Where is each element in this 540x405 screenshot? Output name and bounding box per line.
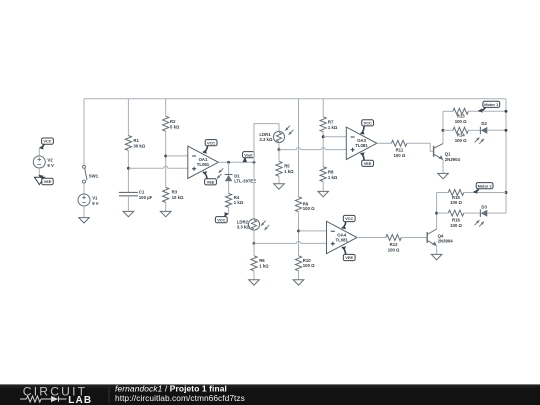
ground R5: [274, 184, 285, 189]
svg-text:100 Ω: 100 Ω: [455, 119, 467, 124]
svg-text:30 kΩ: 30 kΩ: [133, 144, 145, 149]
wire OA1 output: [218, 161, 254, 163]
svg-text:R3: R3: [172, 189, 178, 194]
wire rail to R1: [127, 99, 129, 136]
op-amp OA4: [327, 221, 358, 253]
wire R11 to Q1 base: [407, 143, 434, 151]
svg-text:fernandock1 / Projeto 1 final: fernandock1 / Projeto 1 final: [115, 384, 227, 394]
ground R10: [293, 280, 304, 285]
transistor Q1 2N3904: [434, 144, 461, 162]
wire SW1 to V1: [83, 183, 85, 194]
op-amp OA3: [346, 127, 377, 159]
svg-text:TL081: TL081: [355, 143, 368, 148]
svg-text:SW1: SW1: [89, 174, 99, 179]
svg-text:R12: R12: [390, 242, 398, 247]
resistor R7: [320, 117, 338, 132]
junction R1/C1 node: [127, 167, 130, 170]
svg-text:Vout: Vout: [244, 152, 253, 157]
resistor R15: [448, 190, 464, 206]
svg-text:3.3 kΩ: 3.3 kΩ: [259, 137, 273, 142]
svg-text:D3: D3: [481, 204, 487, 209]
LED D2: [475, 121, 488, 144]
op-amp OA1: [188, 146, 219, 178]
photoresistor LDR2: [237, 219, 269, 230]
junction rail/D2: [505, 129, 508, 132]
svg-text:VCC: VCC: [217, 217, 225, 222]
svg-text:100 Ω: 100 Ω: [303, 263, 315, 268]
resistor R9: [295, 197, 315, 212]
wire to OA1 + input: [128, 167, 187, 169]
svg-text:VEE: VEE: [207, 179, 215, 184]
wire R8 to ground: [322, 182, 324, 192]
ground Q1: [438, 173, 449, 178]
capacitor C1: [119, 190, 153, 200]
node flag VEE (V2): [34, 175, 53, 185]
power flag VCC (OA4): [342, 215, 355, 229]
ground C1: [123, 211, 134, 216]
resistor R3: [163, 187, 184, 202]
resistor R13: [453, 108, 469, 124]
junction OA1 out / D1: [227, 161, 230, 164]
svg-text:1 kΩ: 1 kΩ: [284, 169, 294, 174]
wire Q1 collector up: [442, 111, 444, 143]
wire LDR1 to node: [278, 143, 280, 150]
logo resistor-diode glyph: [20, 398, 27, 400]
resistor R16: [448, 210, 464, 228]
wire Vout node to LDR2: [253, 162, 255, 219]
junction OA1 out / LDR column: [253, 161, 256, 164]
svg-text:3.3 kΩ: 3.3 kΩ: [237, 225, 251, 230]
wire node to R5: [278, 150, 280, 162]
power flag VEE (OA3): [361, 152, 374, 166]
wire LDR1 node to OA3 + input: [279, 149, 346, 151]
wire C1 to ground: [127, 196, 129, 212]
wire rail to R2: [165, 99, 167, 116]
wire OA3 out to R11: [377, 142, 392, 144]
svg-text:VCC: VCC: [207, 140, 215, 145]
wire D2 to right rail: [487, 129, 506, 131]
wire V1 to ground: [83, 206, 85, 218]
svg-text:LTL-307EE: LTL-307EE: [234, 178, 256, 183]
wire R14 to D2: [468, 129, 480, 131]
wire R3 to ground: [165, 202, 167, 211]
wire right VCC rail: [505, 99, 507, 213]
svg-text:VEE: VEE: [44, 179, 52, 184]
wire to OA1 - input: [166, 155, 188, 157]
svg-text:R14: R14: [457, 133, 465, 138]
wire to R13: [443, 110, 453, 112]
svg-text:D2: D2: [481, 121, 487, 126]
resistor R1: [125, 136, 145, 151]
wire R13 to right rail: [468, 110, 506, 112]
svg-text:R13: R13: [457, 114, 465, 119]
wire R9 to R10: [298, 212, 300, 256]
wire R4 to VCC flag: [228, 207, 230, 213]
svg-text:VEE: VEE: [364, 161, 372, 166]
wire to R15: [437, 192, 449, 194]
svg-text:1 kΩ: 1 kΩ: [259, 263, 269, 268]
svg-text:100 Ω: 100 Ω: [388, 247, 400, 252]
svg-text:100 Ω: 100 Ω: [450, 223, 462, 228]
resistor R8: [320, 167, 338, 182]
svg-text:VCC: VCC: [43, 139, 51, 144]
svg-text:1 kΩ: 1 kΩ: [328, 125, 338, 130]
wire R6 to ground: [253, 271, 255, 280]
junction R9/R10: [297, 229, 300, 232]
wire Q4 collector up: [436, 193, 438, 230]
wire LDR2 to node: [253, 230, 255, 243]
junction LDR1/R5: [278, 148, 281, 151]
resistor R14: [453, 127, 469, 143]
svg-text:100 Ω: 100 Ω: [303, 206, 315, 211]
node flag Motor 2: [474, 183, 493, 194]
wire R10 to ground: [298, 271, 300, 280]
wire to D1: [228, 162, 230, 174]
wire LDR2 node to OA4 + input: [254, 242, 327, 244]
svg-text:VCC: VCC: [363, 120, 371, 125]
wire D3 to right rail: [487, 212, 506, 214]
svg-text:1 kΩ: 1 kΩ: [328, 175, 338, 180]
junction R7/R8: [322, 135, 325, 138]
ground R6: [249, 280, 260, 285]
wire R5 to ground: [278, 176, 280, 184]
svg-text:R7: R7: [328, 119, 334, 124]
wire node to R6: [253, 243, 255, 255]
junction LDR2/R6: [253, 242, 256, 245]
wire OA4 out to R12: [357, 237, 386, 239]
svg-text:R8: R8: [328, 169, 334, 174]
resistor R12: [386, 235, 402, 253]
junction rail/R15: [505, 191, 508, 194]
switch SW1: [83, 165, 99, 183]
resistor R5: [276, 161, 294, 176]
wire rail to R7: [322, 99, 324, 117]
junction Q4 collector / R16: [435, 212, 438, 215]
resistor R4: [226, 193, 244, 207]
power flag VEE (OA4): [342, 246, 355, 260]
svg-text:9 V: 9 V: [92, 201, 99, 206]
power flag VCC (OA3): [361, 120, 374, 135]
svg-text:Motor 2: Motor 2: [478, 183, 493, 188]
svg-text:R5: R5: [284, 163, 290, 168]
ground V1: [79, 218, 90, 223]
svg-text:100 Ω: 100 Ω: [393, 153, 405, 158]
wire to OA4 - input: [299, 230, 327, 232]
node flag VCC (V2): [40, 138, 54, 150]
footer divider: [108, 387, 110, 404]
LED D3: [475, 204, 488, 226]
resistor R2: [163, 116, 180, 131]
svg-text:100 µF: 100 µF: [139, 195, 153, 200]
svg-text:TL081: TL081: [197, 162, 210, 167]
svg-text:TL081: TL081: [335, 237, 348, 242]
wire D1 to R4: [228, 181, 230, 193]
wire Vout node to LDR1 top: [254, 124, 279, 163]
wire rail to SW1: [83, 99, 85, 166]
svg-text:Motor 1: Motor 1: [484, 102, 499, 107]
wire Q4 emitter down: [436, 246, 438, 255]
ground R3: [160, 211, 171, 216]
svg-text:Q1: Q1: [445, 151, 451, 156]
svg-text:R11: R11: [396, 148, 404, 153]
ground R8: [318, 191, 329, 196]
wire Q1 emitter down: [442, 160, 444, 174]
voltage source V2: [33, 156, 54, 168]
svg-text:1 kΩ: 1 kΩ: [234, 200, 244, 205]
svg-text:2N3904: 2N3904: [445, 157, 461, 162]
resistor R11: [391, 140, 407, 158]
wire R1 to C1: [127, 151, 129, 193]
photoresistor LDR1: [259, 126, 293, 143]
svg-text:100 Ω: 100 Ω: [455, 138, 467, 143]
node flag Vout: [242, 152, 254, 163]
junction R2/R3 node: [164, 154, 167, 157]
svg-text:VCC: VCC: [345, 216, 353, 221]
svg-text:9 V: 9 V: [47, 163, 54, 168]
wire rail to R9: [298, 99, 300, 197]
wire to OA3 - input: [323, 136, 346, 138]
svg-text:R2: R2: [170, 119, 176, 124]
svg-text:R1: R1: [133, 138, 139, 143]
svg-text:100 Ω: 100 Ω: [450, 200, 462, 205]
junction rail/R13: [505, 110, 508, 113]
wire top VCC rail: [84, 98, 506, 100]
wire to R14: [443, 129, 453, 131]
svg-text:http://circuitlab.com/ctmn66cf: http://circuitlab.com/ctmn66cfd7tzs: [115, 393, 245, 403]
svg-text:2N3904: 2N3904: [438, 238, 454, 243]
junction Q1 collector / R14: [442, 129, 445, 132]
resistor R10: [295, 256, 315, 271]
svg-text:VEE: VEE: [345, 255, 353, 260]
wire V2 to VEE flag: [38, 168, 40, 175]
power flag VEE (OA1): [203, 171, 217, 185]
svg-text:10 kΩ: 10 kΩ: [172, 195, 184, 200]
ground Q4: [431, 254, 442, 259]
wire R12 to Q4 base: [401, 237, 427, 239]
wire to R16: [437, 212, 449, 214]
svg-text:R16: R16: [452, 217, 460, 222]
wire VCC flag to V2: [38, 148, 40, 156]
transistor Q4 2N3904: [427, 229, 453, 246]
power flag VCC (OA1): [203, 140, 217, 154]
wire R2 to R3: [165, 131, 167, 187]
voltage source V1: [78, 194, 99, 206]
resistor R6: [251, 256, 269, 271]
svg-text:LAB: LAB: [68, 395, 92, 405]
wire R15 to right rail: [464, 192, 506, 194]
LED D1: [217, 168, 256, 183]
svg-text:R15: R15: [452, 195, 460, 200]
svg-text:5 kΩ: 5 kΩ: [170, 125, 180, 130]
wire R7 to R8: [322, 132, 324, 167]
node flag Motor 1: [479, 101, 500, 113]
node flag VCC (R4): [215, 212, 228, 223]
svg-text:R6: R6: [259, 258, 265, 263]
wire R16 to D3: [464, 212, 481, 214]
